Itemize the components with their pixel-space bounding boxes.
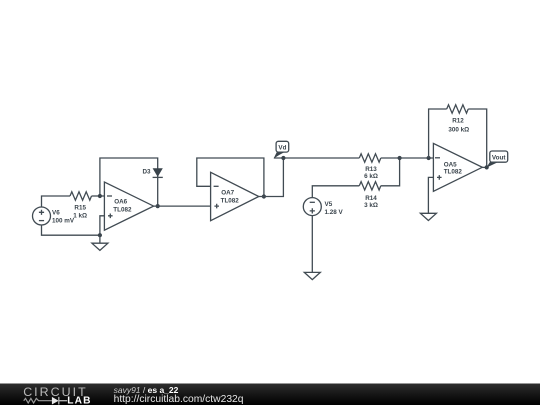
node at OA5 inverting input (427, 156, 431, 160)
svg-text:V5: V5 (325, 201, 333, 208)
node at ground junction (98, 233, 102, 237)
svg-text:R15: R15 (74, 205, 86, 212)
resistor R14 (359, 182, 381, 190)
svg-text:3 kΩ: 3 kΩ (364, 202, 378, 209)
op-amp OA7 (211, 172, 259, 220)
wire OA5 feedback loop R12 (429, 109, 447, 158)
svg-text:http://circuitlab.com/ctw232q: http://circuitlab.com/ctw232q (114, 394, 244, 405)
wire V5 bottom to ground (311, 216, 313, 273)
resistor R13 (359, 154, 381, 162)
svg-text:TL082: TL082 (444, 169, 463, 176)
wire V6 bottom (42, 225, 100, 235)
svg-text:300 kΩ: 300 kΩ (448, 127, 469, 134)
wire Vd horizontal run to R13 (274, 157, 359, 159)
wire OA6 feedback loop (100, 158, 158, 206)
wire OA7 feedback loop (197, 158, 264, 197)
svg-text:LAB: LAB (67, 395, 91, 405)
svg-text:TL082: TL082 (113, 206, 132, 213)
node Vout junction (485, 165, 489, 169)
svg-text:R13: R13 (365, 166, 377, 173)
logo resistor zigzag (24, 398, 52, 403)
wire OA6 plus input to ground node (100, 216, 105, 235)
wire OA6 output to OA7 plus input (154, 205, 211, 207)
node Vd junction (281, 156, 285, 160)
svg-text:Vout: Vout (492, 155, 506, 162)
diode D3 (153, 168, 163, 177)
wire R13 right lead (381, 157, 400, 159)
logo diode (52, 397, 67, 405)
svg-text:TL082: TL082 (221, 198, 240, 205)
node R13 R14 junction (398, 156, 402, 160)
wire V6 top to R15 (42, 196, 71, 207)
wire R14 right lead up to node (381, 158, 400, 186)
node at OA6 inverting input (98, 194, 102, 198)
node flag Vd (274, 141, 289, 158)
voltage source V5 (303, 198, 321, 216)
svg-text:R12: R12 (452, 118, 464, 125)
svg-text:6 kΩ: 6 kΩ (364, 173, 378, 180)
wire V5 to R14 (312, 186, 359, 198)
node at OA6 output (156, 204, 160, 208)
svg-text:100 mV: 100 mV (52, 218, 75, 225)
wire node to OA5 minus input (400, 157, 434, 159)
node at OA7 output (262, 194, 266, 198)
footer bar (0, 384, 540, 405)
op-amp OA5 (433, 143, 482, 191)
wire R15 right lead to node (92, 195, 100, 197)
wire OA5 output (482, 166, 486, 168)
resistor R15 (70, 192, 91, 200)
svg-text:R14: R14 (365, 195, 377, 202)
svg-text:D3: D3 (142, 169, 151, 176)
wire OA5 plus input to ground (428, 177, 433, 213)
svg-text:OA7: OA7 (221, 190, 234, 197)
svg-text:Vd: Vd (278, 145, 286, 152)
wire minus stub OA6 (100, 195, 105, 197)
node flag Vout (486, 151, 507, 168)
wire OA7 output to node Vd (259, 158, 284, 197)
resistor R12 (447, 105, 469, 113)
wire R12 right lead down to output (468, 109, 487, 167)
wire ground stub (99, 235, 101, 243)
svg-text:OA6: OA6 (114, 198, 127, 205)
ground (92, 243, 108, 250)
svg-text:1 kΩ: 1 kΩ (73, 212, 87, 219)
svg-text:1.28 V: 1.28 V (325, 209, 344, 216)
voltage source V6 (33, 207, 51, 225)
op-amp OA6 (104, 182, 153, 230)
ground (420, 213, 436, 220)
ground (304, 272, 320, 279)
svg-text:V6: V6 (52, 210, 60, 217)
